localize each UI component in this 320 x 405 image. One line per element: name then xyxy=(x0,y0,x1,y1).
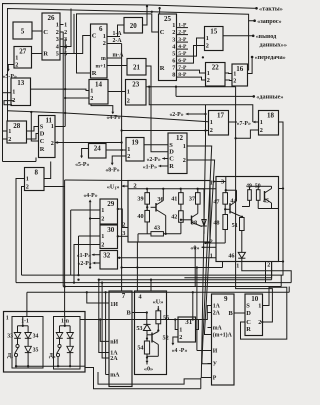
svg-text:nИ: nИ xyxy=(110,340,118,346)
svg-text:2: 2 xyxy=(127,98,130,105)
svg-text:34: 34 xyxy=(33,334,39,340)
svg-text:2: 2 xyxy=(179,334,182,341)
svg-text:5-P: 5-P xyxy=(178,51,187,57)
svg-text:3: 3 xyxy=(56,36,59,43)
svg-text:R: R xyxy=(92,70,97,77)
svg-text:«вывод: «вывод xyxy=(256,33,277,40)
svg-text:15: 15 xyxy=(210,28,218,36)
svg-text:7-P: 7-P xyxy=(178,65,187,71)
svg-text:4-P: 4-P xyxy=(178,44,187,50)
svg-text:«0»: «0» xyxy=(190,245,199,252)
svg-text:3: 3 xyxy=(64,37,67,43)
svg-text:2: 2 xyxy=(90,95,93,102)
svg-text:4: 4 xyxy=(64,45,67,51)
svg-text:1И: 1И xyxy=(110,302,118,308)
svg-text:«4-Р»: «4-Р» xyxy=(83,193,97,199)
svg-text:C: C xyxy=(92,33,97,40)
svg-text:1: 1 xyxy=(172,22,175,29)
svg-text:1: 1 xyxy=(258,303,261,310)
svg-text:2: 2 xyxy=(122,223,125,229)
svg-text:C: C xyxy=(43,29,48,36)
svg-text:35: 35 xyxy=(33,348,39,354)
svg-text:m-А: m-А xyxy=(113,53,125,59)
svg-text:28: 28 xyxy=(13,122,21,130)
svg-text:55: 55 xyxy=(163,315,169,322)
svg-text:53: 53 xyxy=(136,325,142,332)
svg-text:«данные»: «данные» xyxy=(256,94,283,101)
svg-text:2: 2 xyxy=(15,62,18,69)
svg-text:«U1»: «U1» xyxy=(107,183,120,190)
svg-text:39: 39 xyxy=(137,195,143,202)
svg-text:1: 1 xyxy=(103,33,106,40)
svg-text:«1-Р»: «1-Р» xyxy=(143,164,157,170)
svg-text:D: D xyxy=(40,131,45,138)
svg-text:«8-Р»: «8-Р» xyxy=(105,168,119,174)
svg-text:«4 -Р»: «4 -Р» xyxy=(172,348,188,354)
svg-text:7: 7 xyxy=(122,292,126,300)
svg-text:C: C xyxy=(160,29,165,36)
svg-text:2: 2 xyxy=(206,43,209,50)
svg-text:50: 50 xyxy=(255,184,261,190)
svg-text:S: S xyxy=(40,124,44,131)
svg-text:1: 1 xyxy=(206,35,209,42)
svg-text:1: 1 xyxy=(210,119,213,126)
svg-text:1: 1 xyxy=(8,128,11,135)
svg-text:49: 49 xyxy=(246,184,252,190)
svg-text:1: 1 xyxy=(207,70,210,77)
svg-text:22: 22 xyxy=(212,64,220,72)
svg-text:2: 2 xyxy=(12,97,15,104)
svg-text:26: 26 xyxy=(48,14,56,22)
svg-text:48: 48 xyxy=(213,220,219,227)
svg-text:2А: 2А xyxy=(110,356,118,362)
svg-text:1А: 1А xyxy=(213,304,221,310)
svg-text:5: 5 xyxy=(64,52,67,58)
svg-text:1: 1 xyxy=(6,316,9,322)
svg-text:12: 12 xyxy=(176,134,184,142)
svg-text:(m+1)А: (m+1)А xyxy=(213,332,233,339)
svg-text:m: m xyxy=(101,56,106,62)
svg-text:36: 36 xyxy=(157,196,163,203)
svg-text:mА: mА xyxy=(110,373,120,379)
svg-text:R: R xyxy=(160,65,165,72)
svg-text:1: 1 xyxy=(90,88,93,95)
svg-text:6: 6 xyxy=(172,58,175,65)
svg-text:1-1: 1-1 xyxy=(21,319,29,325)
svg-text:C: C xyxy=(246,319,251,326)
svg-text:46: 46 xyxy=(228,253,234,260)
svg-text:27: 27 xyxy=(19,48,27,56)
svg-text:«7-Р»: «7-Р» xyxy=(237,121,251,127)
svg-text:2: 2 xyxy=(258,319,261,326)
svg-text:1: 1 xyxy=(26,176,29,183)
svg-text:«1-Р»: «1-Р» xyxy=(77,253,91,259)
svg-text:1: 1 xyxy=(51,123,54,130)
svg-text:«0»: «0» xyxy=(144,366,153,373)
svg-text:R: R xyxy=(40,146,45,153)
svg-text:2: 2 xyxy=(8,136,11,143)
svg-text:2: 2 xyxy=(207,77,210,84)
svg-text:29: 29 xyxy=(107,200,115,208)
svg-text:В: В xyxy=(127,310,132,317)
svg-text:2-P: 2-P xyxy=(178,30,187,36)
svg-text:D: D xyxy=(246,310,251,317)
svg-text:1-P: 1-P xyxy=(178,23,187,29)
svg-text:2: 2 xyxy=(56,29,59,36)
svg-text:8-P: 8-P xyxy=(178,72,187,78)
svg-text:4: 4 xyxy=(56,44,59,51)
svg-text:2: 2 xyxy=(26,184,29,191)
svg-text:2: 2 xyxy=(172,29,175,36)
svg-text:«5-Р»: «5-Р» xyxy=(3,74,17,80)
svg-text:1: 1 xyxy=(101,233,104,240)
svg-text:1: 1 xyxy=(127,89,130,96)
svg-text:19: 19 xyxy=(132,139,140,147)
svg-text:2: 2 xyxy=(101,242,104,249)
svg-text:2: 2 xyxy=(103,40,106,47)
svg-text:1: 1 xyxy=(179,327,182,334)
svg-text:2-А: 2-А xyxy=(113,38,123,44)
svg-text:1: 1 xyxy=(210,181,213,187)
svg-text:37: 37 xyxy=(189,195,195,202)
svg-text:«2-Р»: «2-Р» xyxy=(77,261,91,267)
svg-text:1: 1 xyxy=(12,89,15,96)
svg-text:17: 17 xyxy=(217,112,225,120)
svg-text:16: 16 xyxy=(236,65,244,73)
svg-text:1: 1 xyxy=(210,254,213,260)
svg-text:1: 1 xyxy=(260,119,263,126)
svg-text:«передача»: «передача» xyxy=(255,54,286,61)
svg-text:20: 20 xyxy=(130,22,138,30)
svg-text:42: 42 xyxy=(171,214,177,221)
svg-text:40: 40 xyxy=(137,213,143,220)
svg-text:2: 2 xyxy=(183,157,186,164)
svg-text:2: 2 xyxy=(210,127,213,134)
svg-text:25: 25 xyxy=(164,15,172,23)
svg-text:S: S xyxy=(246,303,250,310)
svg-text:21: 21 xyxy=(133,64,141,72)
svg-text:C: C xyxy=(169,156,174,163)
svg-text:2: 2 xyxy=(64,30,67,36)
svg-text:44: 44 xyxy=(230,198,236,205)
svg-text:1: 1 xyxy=(64,23,67,29)
svg-text:2: 2 xyxy=(260,127,263,134)
svg-text:И: И xyxy=(213,349,218,355)
svg-text:R: R xyxy=(246,326,251,333)
svg-text:2: 2 xyxy=(127,153,130,160)
svg-text:32: 32 xyxy=(103,252,111,260)
svg-text:Д1: Д1 xyxy=(7,353,13,359)
svg-text:Р: Р xyxy=(213,376,217,382)
svg-text:R: R xyxy=(169,163,174,170)
svg-text:41: 41 xyxy=(171,195,177,202)
svg-text:D: D xyxy=(169,149,174,156)
svg-text:8: 8 xyxy=(35,169,39,177)
svg-text:R: R xyxy=(43,51,48,58)
svg-text:3: 3 xyxy=(172,37,175,44)
svg-text:1: 1 xyxy=(56,22,59,29)
svg-text:«запрос»: «запрос» xyxy=(257,18,282,25)
svg-text:У: У xyxy=(213,362,218,368)
svg-text:54: 54 xyxy=(137,345,143,352)
svg-text:1-А: 1-А xyxy=(113,31,123,37)
svg-text:2: 2 xyxy=(51,140,54,147)
svg-text:30: 30 xyxy=(107,226,115,234)
svg-text:51: 51 xyxy=(232,222,238,229)
svg-text:1: 1 xyxy=(233,71,236,78)
svg-text:3-P: 3-P xyxy=(178,37,187,43)
svg-text:18: 18 xyxy=(267,112,275,120)
svg-text:Дn: Дn xyxy=(49,353,56,359)
svg-text:2А: 2А xyxy=(213,311,221,317)
svg-text:m+1: m+1 xyxy=(96,64,107,70)
svg-text:43: 43 xyxy=(154,225,160,232)
svg-text:1: 1 xyxy=(127,146,130,153)
svg-text:14: 14 xyxy=(95,81,103,89)
svg-text:5: 5 xyxy=(56,51,59,58)
svg-text:данных»»: данных»» xyxy=(260,42,287,49)
svg-text:38: 38 xyxy=(191,220,197,227)
svg-text:2: 2 xyxy=(101,216,104,223)
svg-text:2: 2 xyxy=(210,240,213,246)
svg-text:1: 1 xyxy=(15,55,18,62)
svg-text:47: 47 xyxy=(213,198,219,205)
svg-text:1: 1 xyxy=(183,143,186,150)
svg-text:52: 52 xyxy=(163,335,169,342)
svg-text:«4-Р»: «4-Р» xyxy=(106,115,120,121)
svg-text:5: 5 xyxy=(21,28,25,36)
svg-text:31: 31 xyxy=(185,318,193,326)
svg-text:«2-Р»: «2-Р» xyxy=(146,157,160,163)
svg-text:45: 45 xyxy=(263,198,269,205)
svg-text:1-n: 1-n xyxy=(61,319,70,325)
svg-text:2: 2 xyxy=(267,263,270,269)
svg-text:8: 8 xyxy=(172,72,175,79)
svg-text:23: 23 xyxy=(132,81,140,89)
svg-text:6: 6 xyxy=(99,25,103,33)
svg-text:7: 7 xyxy=(172,65,175,72)
svg-text:1: 1 xyxy=(101,207,104,214)
svg-text:5: 5 xyxy=(172,51,175,58)
svg-text:6-P: 6-P xyxy=(178,58,187,64)
svg-text:4: 4 xyxy=(172,44,175,51)
svg-text:«U»: «U» xyxy=(153,299,164,306)
svg-text:9: 9 xyxy=(224,295,228,303)
svg-text:2: 2 xyxy=(233,78,236,85)
svg-text:«такты»: «такты» xyxy=(259,6,283,13)
svg-text:1: 1 xyxy=(236,263,239,269)
svg-text:24: 24 xyxy=(94,145,102,153)
svg-text:13: 13 xyxy=(17,79,25,87)
svg-text:«2-Р»: «2-Р» xyxy=(169,112,183,118)
svg-text:33: 33 xyxy=(7,334,13,340)
svg-text:3: 3 xyxy=(122,231,125,237)
svg-text:В: В xyxy=(229,310,234,317)
svg-text:mА: mА xyxy=(213,326,223,332)
svg-text:C: C xyxy=(40,138,45,145)
svg-text:«5-Р»: «5-Р» xyxy=(75,162,89,168)
